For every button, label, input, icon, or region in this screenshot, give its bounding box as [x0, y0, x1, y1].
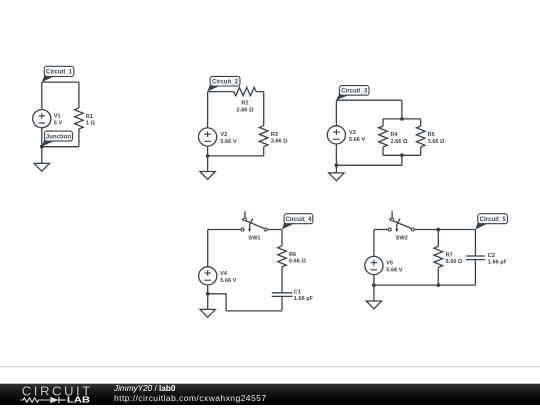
- wire circuit2 top-right: [256, 91, 264, 93]
- wire V5 bottom: [373, 275, 375, 285]
- svg-text:Circuit_4: Circuit_4: [285, 216, 312, 223]
- label flag Circuit_3: [336, 92, 350, 100]
- svg-text:6.66 Ω: 6.66 Ω: [446, 259, 463, 265]
- wire circuit2 right: [263, 92, 265, 126]
- wire circuit2 left: [207, 92, 209, 128]
- svg-text:SW2: SW2: [396, 236, 408, 242]
- svg-text:R2: R2: [241, 101, 248, 107]
- svg-text:R3: R3: [271, 132, 278, 138]
- wire V2 bottom: [207, 146, 209, 156]
- voltage source V3 5.66 V: [327, 126, 345, 144]
- capacitor C2 1.66 uF: [466, 256, 485, 260]
- wire R3 bottom: [263, 147, 265, 156]
- svg-text:SW1: SW1: [248, 236, 260, 242]
- svg-text:V2: V2: [220, 132, 227, 138]
- wire ground stem circuit2: [207, 156, 209, 172]
- svg-text:LAB: LAB: [67, 396, 91, 405]
- switch SW1 lever: [242, 219, 265, 229]
- wire circuit3 parallel top rail: [383, 118, 421, 120]
- wire V1 bottom: [41, 128, 43, 147]
- svg-text:2.66 Ω: 2.66 Ω: [391, 139, 408, 145]
- wire SW1 right: [267, 229, 282, 231]
- wire ground stem circuit3: [335, 165, 337, 173]
- svg-text:5 V: 5 V: [54, 121, 63, 127]
- wire switch top throw stub: [391, 211, 393, 218]
- wire circuit2 top-left: [208, 91, 234, 93]
- svg-text:5.66 V: 5.66 V: [220, 278, 236, 284]
- svg-text:5.66 V: 5.66 V: [349, 137, 365, 143]
- svg-text:C1: C1: [294, 290, 301, 296]
- wire ground stem circuit5: [373, 285, 375, 301]
- wire circuit3 parallel bottom rail: [383, 154, 421, 156]
- svg-text:5.66 V: 5.66 V: [386, 268, 402, 274]
- node junction dot circuit5 bottom R7: [436, 283, 440, 287]
- wire R4 bottom lead: [382, 147, 384, 155]
- wire R7 bottom lead: [437, 267, 439, 285]
- svg-text:1 Ω: 1 Ω: [86, 121, 96, 127]
- wire ground stem circuit4: [207, 294, 209, 310]
- wire C2 bottom: [474, 260, 476, 286]
- wire circuit1 bottom: [42, 146, 79, 148]
- wire ground stem circuit1: [41, 147, 43, 164]
- wire circuit5 left: [373, 230, 375, 257]
- wire circuit1 left: [41, 82, 43, 109]
- ground circuit2: [200, 172, 215, 180]
- svg-text:R4: R4: [391, 132, 399, 138]
- ground circuit4: [200, 309, 215, 317]
- node junction dot circuit3 bottom: [335, 163, 339, 167]
- svg-text:C2: C2: [488, 253, 495, 259]
- node junction dot circuit5 bottom: [372, 283, 376, 287]
- wire switch top throw stub: [244, 211, 246, 218]
- switch SW2 terminals: [388, 228, 391, 231]
- svg-text:http://circuitlab.com/cxwahxng: http://circuitlab.com/cxwahxng24557: [114, 393, 267, 403]
- ground circuit1: [34, 163, 49, 171]
- wire circuit2 bottom: [208, 155, 264, 157]
- switch SW2 lever: [389, 219, 412, 229]
- CircuitLab logo diode: [50, 397, 58, 404]
- voltage source V1 5 V: [33, 110, 51, 128]
- wire circuit4 jog: [208, 294, 226, 311]
- switch SW1 actuator arrow: [250, 219, 253, 230]
- svg-text:3.66 Ω: 3.66 Ω: [271, 139, 288, 145]
- wire R5 bottom lead: [420, 147, 422, 155]
- resistor R2 2.66 Ohm: [234, 87, 256, 95]
- voltage source V5 5.66 V: [365, 256, 383, 274]
- wire V4 bottom: [207, 285, 209, 294]
- wire circuit1 right: [78, 82, 80, 108]
- svg-text:V3: V3: [349, 130, 356, 136]
- voltage source V4 5.66 V: [199, 267, 217, 285]
- svg-text:V5: V5: [386, 260, 393, 266]
- wire circuit3 top: [336, 99, 402, 101]
- svg-text:JimmyY20 / lab0: JimmyY20 / lab0: [113, 384, 176, 393]
- svg-text:6.66 Ω: 6.66 Ω: [289, 259, 306, 265]
- label flag Circuit_1: [42, 73, 55, 82]
- node junction dot circuit4: [206, 292, 210, 296]
- switch SW1 terminals: [241, 228, 244, 231]
- wire R7 top lead: [437, 230, 439, 247]
- wire SW2 left: [374, 229, 388, 231]
- svg-text:R6: R6: [289, 252, 296, 258]
- resistor R3 3.66 Ohm: [259, 126, 268, 147]
- wire R4 top lead: [382, 119, 384, 126]
- wire circuit5 bottom: [374, 284, 476, 286]
- resistor R4 2.66 Ohm: [379, 126, 388, 147]
- svg-text:2.66 Ω: 2.66 Ω: [237, 108, 254, 114]
- ground circuit3: [329, 173, 344, 181]
- node junction dot circuit3 bottom rail: [400, 153, 404, 157]
- switch SW2 actuator arrow: [397, 219, 400, 230]
- wire R6 to C1: [281, 267, 283, 293]
- capacitor C1 1.66 uF: [272, 293, 293, 297]
- svg-text:Circuit_5: Circuit_5: [480, 216, 507, 223]
- svg-text:3.66 Ω: 3.66 Ω: [428, 139, 445, 145]
- label flag Circuit_2: [207, 83, 221, 92]
- wire circuit3 left: [335, 100, 337, 125]
- svg-text:1.66 µF: 1.66 µF: [488, 259, 508, 265]
- wire circuit3 bottom: [336, 164, 402, 166]
- wire SW2 right: [414, 229, 475, 231]
- svg-text:V4: V4: [220, 271, 228, 277]
- wire R5 top lead: [420, 119, 422, 126]
- CircuitLab logo resistor zigzag: [21, 398, 51, 402]
- wire circuit5 right drop to C2: [474, 230, 476, 257]
- label flag Junction: [42, 138, 56, 147]
- resistor R7 6.66 Ohm: [434, 246, 443, 267]
- svg-text:R1: R1: [86, 114, 93, 120]
- svg-text:V1: V1: [54, 114, 61, 120]
- ground circuit5: [366, 301, 381, 309]
- svg-text:5.66 V: 5.66 V: [220, 139, 236, 145]
- wire circuit4 left: [207, 230, 209, 267]
- node junction dot circuit3 top: [400, 117, 404, 121]
- wire circuit4 bottom: [226, 310, 282, 312]
- wire C1 bottom: [281, 296, 283, 311]
- svg-text:1.66 µF: 1.66 µF: [294, 296, 314, 302]
- wire circuit1 top: [42, 81, 79, 83]
- wire circuit3 bottom drop: [401, 155, 403, 165]
- wire R1 bottom: [78, 129, 80, 147]
- svg-text:Circuit_2: Circuit_2: [212, 78, 239, 85]
- resistor R6 6.66 Ohm: [278, 246, 287, 267]
- label flag Circuit_5: [475, 220, 488, 229]
- svg-text:Junction: Junction: [46, 133, 72, 140]
- resistor R5 3.66 Ohm: [416, 126, 425, 147]
- node junction dot circuit5 top: [436, 228, 440, 232]
- svg-text:R5: R5: [428, 132, 435, 138]
- wire SW1 left: [208, 229, 241, 231]
- voltage source V2 5.66 V: [199, 128, 217, 146]
- wire circuit4 right drop: [281, 230, 283, 246]
- label flag Circuit_4: [282, 220, 295, 229]
- node junction dot circuit2: [206, 154, 210, 158]
- svg-text:Circuit_3: Circuit_3: [341, 88, 368, 95]
- wire V3 bottom: [335, 144, 337, 165]
- resistor R1 1 Ohm: [75, 108, 84, 129]
- svg-text:Circuit_1: Circuit_1: [46, 69, 73, 76]
- node junction dot circuit1: [40, 145, 44, 149]
- wire circuit3 top drop: [401, 100, 403, 119]
- svg-text:R7: R7: [446, 253, 453, 259]
